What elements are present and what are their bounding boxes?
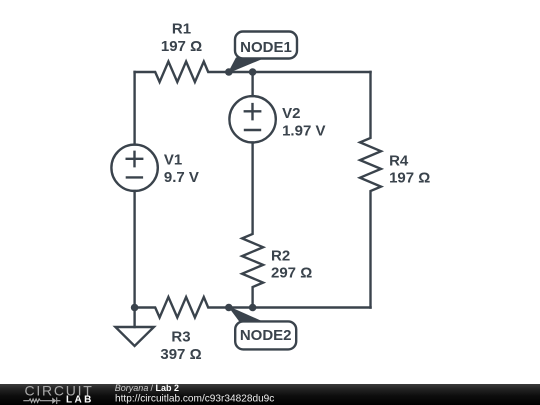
- svg-text:NODE2: NODE2: [240, 327, 292, 344]
- svg-text:http://circuitlab.com/c93r3482: http://circuitlab.com/c93r34828du9c: [115, 393, 274, 404]
- svg-text:197 Ω: 197 Ω: [389, 170, 430, 187]
- svg-text:V1: V1: [164, 151, 182, 168]
- svg-text:Boryana: Boryana: [115, 383, 149, 393]
- svg-text:V2: V2: [282, 105, 300, 122]
- svg-text:R2: R2: [271, 248, 290, 265]
- svg-text:1.97 V: 1.97 V: [282, 123, 325, 140]
- svg-text:LAB: LAB: [66, 395, 94, 405]
- svg-text:R4: R4: [389, 153, 409, 170]
- svg-text:Lab 2: Lab 2: [156, 383, 180, 393]
- svg-text:R1: R1: [172, 20, 191, 37]
- svg-text:9.7 V: 9.7 V: [164, 169, 199, 186]
- svg-text:197 Ω: 197 Ω: [161, 38, 202, 55]
- svg-text:NODE1: NODE1: [240, 39, 292, 56]
- svg-text:297 Ω: 297 Ω: [271, 265, 312, 282]
- svg-text:397 Ω: 397 Ω: [160, 346, 201, 363]
- svg-text:R3: R3: [171, 329, 190, 346]
